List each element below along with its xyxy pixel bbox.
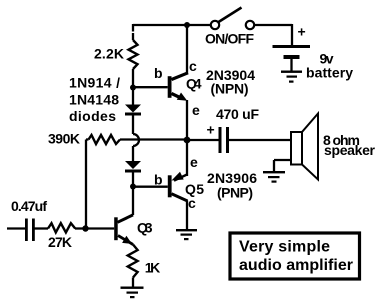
svg-text:(PNP): (PNP) [217, 185, 253, 201]
svg-text:Very simple: Very simple [239, 239, 330, 256]
svg-text:470 uF: 470 uF [216, 106, 259, 122]
svg-text:e: e [190, 154, 198, 170]
svg-text:b: b [154, 65, 163, 81]
svg-text:battery: battery [306, 65, 353, 81]
svg-text:(NPN): (NPN) [211, 80, 249, 96]
svg-text:c: c [188, 195, 196, 211]
svg-text:1K: 1K [145, 260, 161, 276]
svg-text:390K: 390K [48, 131, 80, 147]
svg-text:ON/OFF: ON/OFF [205, 31, 254, 47]
svg-text:+: + [298, 24, 306, 40]
svg-text:e: e [192, 102, 200, 118]
svg-text:2.2K: 2.2K [94, 46, 124, 62]
svg-text:1N914 /: 1N914 / [69, 75, 120, 91]
svg-text:+: + [207, 122, 215, 138]
svg-text:audio amplifier: audio amplifier [239, 257, 353, 274]
svg-text:diodes: diodes [69, 108, 116, 124]
svg-text:b: b [154, 172, 163, 188]
svg-text:c: c [189, 58, 197, 74]
svg-text:Q3: Q3 [137, 220, 153, 236]
svg-text:0.47uf: 0.47uf [11, 198, 47, 214]
svg-text:1N4148: 1N4148 [69, 92, 119, 108]
svg-text:27K: 27K [48, 234, 72, 250]
svg-text:speaker: speaker [324, 142, 376, 158]
svg-text:Q4: Q4 [186, 76, 202, 92]
